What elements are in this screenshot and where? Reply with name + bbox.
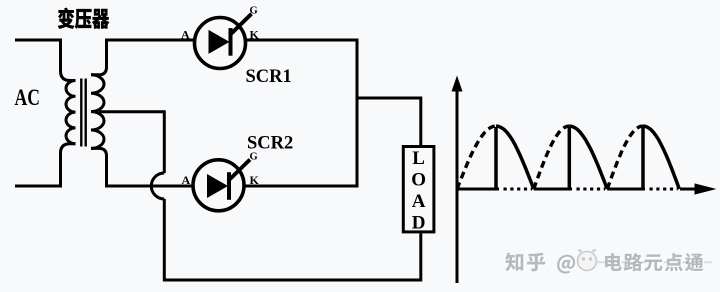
wire right rail branch to load (357, 97, 421, 100)
waveform cycle 1 firing edge (494, 127, 498, 189)
label AC (15, 85, 40, 111)
waveform cycle 3 firing edge (641, 127, 645, 189)
svg-text:AC: AC (15, 85, 40, 111)
wire center tap horizontal (99, 110, 164, 113)
waveform x-axis solid segment 4 (680, 188, 696, 191)
label 变压器 (transformer) (58, 8, 109, 29)
wire SCR1 cathode to right rail (246, 39, 359, 42)
waveform cycle 1 dashed sine rise (457, 126, 496, 189)
waveform cycle 3 dashed sine rise (607, 126, 643, 189)
waveform x-axis dotted segment 3 (650, 188, 678, 191)
watermark underline (596, 261, 712, 263)
wire bottom rail (163, 279, 421, 282)
thyristor SCR1 gate lead (230, 14, 252, 36)
thyristor SCR2 gate lead (228, 160, 250, 182)
waveform x-axis solid segment 2 (534, 188, 572, 191)
wire secondary bottom to SCR2 anode (105, 185, 194, 188)
transformer primary winding (66, 81, 76, 144)
waveform y-axis (456, 90, 459, 283)
svg-text:SCR2: SCR2 (247, 134, 293, 154)
waveform cycle 3 conduction curve (643, 126, 679, 189)
thyristor SCR2 anode triangle (207, 174, 228, 198)
watermark 知乎 (507, 254, 547, 273)
transformer secondary winding (91, 75, 104, 149)
transformer core line 2 (84, 79, 86, 147)
thyristor SCR1 anode triangle (209, 30, 230, 54)
wire primary top vertical (61, 39, 76, 81)
wire right rail vertical (356, 39, 359, 188)
wire AC bottom (15, 185, 62, 188)
watermark logo (578, 249, 597, 271)
wire load bottom vertical (419, 234, 422, 282)
thyristor SCR2 circle (193, 160, 244, 211)
svg-text:A: A (182, 173, 191, 187)
waveform x-axis dotted segment 2 (577, 188, 606, 191)
thyristor SCR2 cathode bar (227, 172, 231, 200)
svg-text:SCR1: SCR1 (246, 67, 292, 87)
svg-text:A: A (181, 28, 190, 42)
waveform cycle 2 firing edge (568, 127, 572, 189)
wire load top vertical (419, 97, 422, 147)
svg-text:L: L (412, 148, 425, 169)
waveform y-axis arrowhead (452, 76, 463, 92)
waveform cycle 2 conduction curve (569, 126, 607, 189)
wire secondary top vertical (91, 39, 107, 75)
wire center tap vertical upper (163, 110, 166, 173)
svg-text:A: A (412, 191, 426, 212)
waveform x-axis arrowhead (695, 183, 717, 194)
wire primary bottom vertical (61, 144, 76, 188)
watermark 电路元点通 (607, 255, 705, 273)
waveform x-axis solid segment 3 (607, 188, 645, 191)
transformer core line 1 (80, 79, 82, 147)
wire top rail secondary to SCR1 anode (105, 39, 195, 42)
wire center tap vertical lower (163, 199, 166, 282)
wire secondary bottom vertical (91, 148, 107, 184)
wire hop over SCR2 anode wire (151, 173, 164, 199)
waveform x-axis solid segment 1 (456, 188, 500, 191)
waveform x-axis dotted segment 1 (504, 188, 533, 191)
resistor LOAD box (403, 147, 434, 232)
svg-text:G: G (250, 6, 258, 17)
thyristor SCR1 cathode bar (229, 28, 233, 56)
thyristor SCR1 circle (195, 18, 246, 69)
waveform cycle 1 conduction curve (496, 126, 534, 189)
svg-text:O: O (411, 169, 426, 190)
svg-text:D: D (412, 213, 426, 234)
waveform cycle 2 dashed sine rise (534, 126, 570, 189)
wire SCR2 cathode to right rail (244, 185, 359, 188)
watermark @ (559, 256, 577, 275)
wire AC top (15, 39, 61, 42)
